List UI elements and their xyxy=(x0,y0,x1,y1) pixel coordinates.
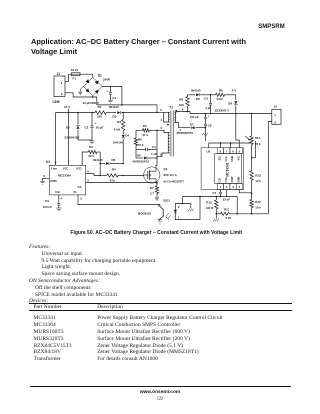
svg-text:10 µF/350 V: 10 µF/350 V xyxy=(83,101,99,105)
resistor R7 2.7 xyxy=(150,183,160,202)
svg-text:GND: GND xyxy=(50,179,56,183)
svg-text:CMP: CMP xyxy=(230,176,234,182)
svg-text:4 kΩ: 4 kΩ xyxy=(216,97,223,101)
svg-text:C7: C7 xyxy=(212,191,216,195)
svg-text:D8: D8 xyxy=(196,97,200,101)
svg-text:0.25: 0.25 xyxy=(225,216,231,220)
svg-text:10 V: 10 V xyxy=(64,105,70,109)
svg-text:CS: CS xyxy=(78,185,82,189)
svg-text:T3.2s: T3.2s xyxy=(71,68,79,72)
svg-text:220: 220 xyxy=(97,114,102,118)
svg-text:1: 1 xyxy=(220,185,222,189)
svg-text:C8: C8 xyxy=(208,124,212,128)
svg-text:C2: C2 xyxy=(85,126,89,130)
footer rule xyxy=(30,385,291,388)
resistor R8 100 xyxy=(179,95,190,112)
svg-text:1: 1 xyxy=(178,215,180,219)
resistor R12 10k xyxy=(250,180,261,214)
ground (secondary common) xyxy=(202,128,208,141)
svg-text:1: 1 xyxy=(81,161,83,165)
svg-text:100 nF: 100 nF xyxy=(43,205,52,209)
svg-text:MC33364: MC33364 xyxy=(58,174,71,178)
svg-text:2: 2 xyxy=(87,179,89,183)
svg-text:J2: J2 xyxy=(274,105,278,109)
svg-text:3: 3 xyxy=(160,126,162,130)
transformer T1 xyxy=(158,105,191,156)
svg-text:3: 3 xyxy=(232,185,234,189)
potentiometer R14 22k xyxy=(245,114,261,159)
svg-text:1N4140: 1N4140 xyxy=(93,158,104,162)
svg-text:Vref: Vref xyxy=(55,190,60,194)
svg-text:Q1: Q1 xyxy=(164,167,168,171)
svg-text:ISO1: ISO1 xyxy=(163,199,170,203)
diode D5 1N4140 xyxy=(93,158,124,165)
svg-text:R2: R2 xyxy=(117,120,121,124)
svg-text:4: 4 xyxy=(61,197,63,201)
svg-text:R8: R8 xyxy=(179,98,183,102)
svg-text:R1: R1 xyxy=(98,105,102,109)
svg-text:330: 330 xyxy=(110,179,115,183)
svg-text:1 µF: 1 µF xyxy=(205,106,211,110)
wire HV rail to T1 primary xyxy=(97,87,168,123)
svg-text:5: 5 xyxy=(238,149,240,153)
svg-text:VSI: VSI xyxy=(236,156,240,161)
svg-text:6: 6 xyxy=(87,170,89,174)
svg-text:+: + xyxy=(95,121,97,125)
svg-text:1: 1 xyxy=(274,113,276,117)
svg-text:LINE: LINE xyxy=(53,100,60,104)
svg-text:8: 8 xyxy=(55,161,57,165)
svg-text:250R: 250R xyxy=(103,78,111,82)
svg-text:2: 2 xyxy=(226,185,228,189)
svg-text:R13: R13 xyxy=(255,173,261,177)
diode D3 1N4140 xyxy=(109,105,121,118)
svg-text:C5: C5 xyxy=(204,97,208,101)
svg-text:VCC: VCC xyxy=(63,166,69,170)
svg-text:D6: D6 xyxy=(137,153,141,157)
svg-text:5: 5 xyxy=(43,174,45,178)
svg-text:BZX84/18V: BZX84/18V xyxy=(65,136,80,140)
svg-text:R12: R12 xyxy=(255,200,261,204)
wire U2 pin8/pin6 to R14 wiper xyxy=(209,136,252,148)
capacitor C8 xyxy=(204,122,212,128)
zener D9 BZX84C5V1 xyxy=(215,95,238,114)
n-channel MOSFET Q1 600V/1A xyxy=(144,167,185,184)
diode D8 1N4140 xyxy=(188,88,216,101)
svg-text:1 nF: 1 nF xyxy=(151,152,157,156)
svg-text:N-Ch MOSFET: N-Ch MOSFET xyxy=(164,179,185,183)
devices heading xyxy=(29,298,48,304)
figure caption xyxy=(0,230,313,236)
svg-text:20 µF: 20 µF xyxy=(96,126,104,130)
table header xyxy=(34,304,62,310)
svg-text:D4: D4 xyxy=(125,134,129,138)
zener D2 BZX84/18V xyxy=(65,113,93,140)
wire clamp to T1 pin3/pin2 xyxy=(157,126,168,158)
wire output rail to J2 pin1 xyxy=(190,113,272,115)
svg-text:R3: R3 xyxy=(89,145,93,149)
svg-text:R7: R7 xyxy=(150,186,154,190)
bridge rectifier D1 xyxy=(84,74,103,96)
svg-text:R10: R10 xyxy=(206,201,212,205)
svg-text:7: 7 xyxy=(68,161,70,165)
capacitor C5 1uF xyxy=(204,95,212,114)
svg-text:10 k: 10 k xyxy=(255,206,261,210)
op-amp controller U2 MC33341 xyxy=(201,148,243,190)
advantages heading xyxy=(29,278,100,284)
svg-text:CTA: CTA xyxy=(224,177,228,182)
svg-text:CSI: CSI xyxy=(218,178,222,183)
wire Q1 drain to T1 pin2 xyxy=(156,157,158,167)
svg-text:8: 8 xyxy=(220,149,222,153)
svg-text:R6: R6 xyxy=(138,137,142,141)
wire rail to U2 pin5 xyxy=(236,114,240,148)
svg-text:3: 3 xyxy=(80,197,82,201)
svg-text:R14: R14 xyxy=(255,136,261,140)
svg-text:6: 6 xyxy=(182,107,184,111)
svg-text:47 k: 47 k xyxy=(142,133,148,137)
resistor R3 22k xyxy=(88,145,100,158)
svg-text:BZX84/5 V: BZX84/5 V xyxy=(215,108,229,112)
svg-text:MOC8102: MOC8102 xyxy=(138,212,152,216)
svg-text:DO: DO xyxy=(218,156,222,160)
svg-text:U2: U2 xyxy=(207,150,211,154)
svg-text:R9: R9 xyxy=(219,88,223,92)
svg-text:ICD: ICD xyxy=(77,166,82,170)
wire opto LED cathode riser xyxy=(199,196,201,220)
resistor R5 47k (clamp) xyxy=(136,124,158,137)
resistor R1 220 xyxy=(95,105,106,118)
svg-text:+: + xyxy=(208,114,210,118)
svg-text:1N4140: 1N4140 xyxy=(109,105,120,109)
svg-text:4: 4 xyxy=(160,118,162,122)
capacitor C2 20uF xyxy=(85,113,104,144)
wire bridge positive output xyxy=(102,78,122,88)
svg-text:600 V/1 A: 600 V/1 A xyxy=(164,173,178,177)
node 10V / Vcc rail xyxy=(56,105,158,114)
resistor R10 100 xyxy=(206,196,219,222)
svg-text:6: 6 xyxy=(232,149,234,153)
wire J1-2 to bridge return xyxy=(73,93,97,105)
svg-text:1N4140: 1N4140 xyxy=(190,88,201,92)
fuse F1 T3.2s xyxy=(69,68,93,81)
diode D7 MURS320T3 xyxy=(177,122,206,134)
resistor R2 4k xyxy=(114,113,125,132)
diode D4 1N4140 xyxy=(113,131,130,164)
capacitor C1 10uF/350V xyxy=(83,87,117,106)
svg-text:1N4140: 1N4140 xyxy=(113,141,124,145)
svg-text:12 k: 12 k xyxy=(255,179,261,183)
optocoupler ISO1 MOC8102 xyxy=(138,199,200,225)
svg-text:R5: R5 xyxy=(143,124,147,128)
svg-text:D3: D3 xyxy=(113,114,117,118)
svg-text:MURS320T3: MURS320T3 xyxy=(177,131,194,135)
svg-text:2: 2 xyxy=(178,205,180,209)
svg-text:47 k: 47 k xyxy=(138,143,144,147)
resistor R11 0.25 (sense) xyxy=(216,207,268,220)
wire U2 pin4 to divider xyxy=(239,190,251,193)
svg-text:7: 7 xyxy=(226,149,228,153)
svg-text:CSB: CSB xyxy=(230,156,234,162)
svg-text:1: 1 xyxy=(61,81,63,85)
svg-text:J1: J1 xyxy=(57,72,61,76)
svg-text:5: 5 xyxy=(160,108,162,112)
capacitor C7 33nF xyxy=(212,190,230,202)
svg-text:22 k: 22 k xyxy=(88,154,94,158)
resistor R6 47k (clamp) xyxy=(134,130,144,158)
svg-text:R11: R11 xyxy=(224,207,230,211)
svg-text:C3: C3 xyxy=(45,199,49,203)
header SMPSRM xyxy=(258,24,285,30)
svg-text:Line: Line xyxy=(51,166,57,170)
svg-text:D1: D1 xyxy=(98,74,102,78)
diode D6 MURS160T3 xyxy=(133,153,158,163)
svg-text:100 R: 100 R xyxy=(206,206,215,210)
svg-text:U1: U1 xyxy=(46,160,50,164)
footer xyxy=(0,390,320,395)
capacitor C4 1nF xyxy=(136,145,157,156)
wire U1 pin3 FL to opto xyxy=(78,195,160,205)
svg-text:2: 2 xyxy=(61,92,63,96)
svg-text:C1: C1 xyxy=(112,96,116,100)
resistor R9 4k xyxy=(216,88,237,101)
svg-text:T1: T1 xyxy=(169,105,173,109)
svg-text:5 V: 5 V xyxy=(232,88,237,92)
wire Vcc rail to U1 pin8 xyxy=(55,113,57,166)
svg-text:D2: D2 xyxy=(66,126,70,130)
svg-text:4: 4 xyxy=(158,217,160,221)
connector J1 (LINE input) xyxy=(53,72,74,104)
resistor R13 12k xyxy=(250,145,261,184)
capacitor C6 100uF xyxy=(190,113,210,123)
svg-text:MC33341: MC33341 xyxy=(226,162,230,176)
features heading xyxy=(29,244,50,250)
title xyxy=(31,37,246,57)
svg-text:D9: D9 xyxy=(228,101,232,105)
resistor R4 330 (gate) xyxy=(86,167,144,182)
svg-text:4 kΩ: 4 kΩ xyxy=(114,128,121,132)
capacitor C3 100nF xyxy=(43,195,63,211)
svg-text:R4: R4 xyxy=(112,167,116,171)
wire U2 pin2 down xyxy=(226,190,228,198)
svg-text:MURS160T3: MURS160T3 xyxy=(133,159,150,163)
svg-text:+: + xyxy=(107,89,109,93)
svg-text:D7: D7 xyxy=(190,122,194,126)
wire 10V node to U1 pin7 xyxy=(68,113,70,166)
table rules xyxy=(29,302,292,305)
svg-text:VCC: VCC xyxy=(224,156,228,162)
svg-text:F1: F1 xyxy=(73,77,77,81)
svg-text:4: 4 xyxy=(238,185,240,189)
IC U1 MC33364 SMPS controller xyxy=(40,160,89,195)
wire feedback rail xyxy=(183,197,239,215)
svg-text:C4: C4 xyxy=(152,145,156,149)
svg-text:D5: D5 xyxy=(112,158,116,162)
svg-text:FL: FL xyxy=(74,190,78,194)
svg-text:100: 100 xyxy=(179,103,184,107)
wire R3 to gate-drive node xyxy=(99,152,124,176)
svg-text:22 k: 22 k xyxy=(255,142,261,146)
connector J2 (battery output) xyxy=(269,105,282,214)
chassis earth arrow (line side) xyxy=(78,87,84,96)
wire U1 pin2 CS to Q1 source xyxy=(86,182,158,184)
svg-text:33 nF: 33 nF xyxy=(223,198,231,202)
svg-text:100 µF: 100 µF xyxy=(190,115,199,119)
svg-text:GND: GND xyxy=(236,177,240,183)
svg-text:2.7: 2.7 xyxy=(150,192,155,196)
wire LED anode to feedback rail xyxy=(182,197,184,205)
wire U1 pin1 (ICD) xyxy=(82,152,88,165)
